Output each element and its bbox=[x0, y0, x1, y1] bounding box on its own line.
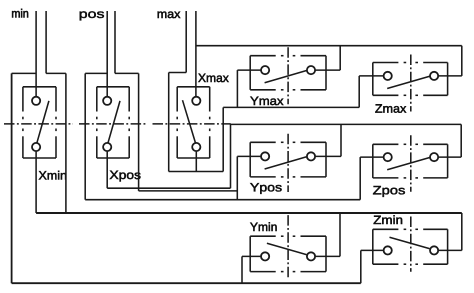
wire Zpos right lead bbox=[438, 156, 461, 158]
wire Ypos left lead bbox=[237, 155, 260, 157]
wire Ypos right lead bbox=[315, 155, 341, 157]
wire Zmax right drop bbox=[461, 46, 463, 76]
label Xmax bbox=[198, 74, 228, 82]
wire Xmax loop bottom edge bbox=[169, 171, 224, 173]
wire max feed (to Xmax top terminal) bbox=[195, 11, 197, 96]
wire pos right bus bbox=[231, 123, 462, 125]
label Zpos bbox=[373, 186, 405, 197]
switch Zpos housing (inner box) bbox=[373, 144, 448, 178]
wire Ymin right riser bbox=[339, 213, 341, 256]
wire Ypos right drop bbox=[340, 124, 342, 156]
wire Zmin left riser bbox=[360, 250, 362, 283]
wire Zpos left lead bbox=[360, 156, 384, 158]
wire Zpos left drop bbox=[359, 157, 361, 200]
switch Xmax contact lever bbox=[183, 100, 196, 143]
wire Zmin left lead bbox=[361, 249, 384, 251]
switch Ymin contact lever bbox=[267, 243, 307, 254]
wire Ypos left drop bbox=[236, 156, 238, 199]
wire Xpos loop right edge bbox=[138, 73, 140, 190]
switch Zpos contact lever bbox=[387, 158, 430, 170]
wire Xmin loop right edge bbox=[65, 73, 67, 213]
wire Xmin loop top-right bbox=[46, 72, 66, 74]
wire Ymax left lead bbox=[237, 69, 260, 71]
switch Xmax actuating centerline (dash-dot) bbox=[153, 123, 231, 125]
switch Zmax actuating centerline (dash-dot) bbox=[410, 55, 412, 112]
switch Ypos actuating centerline (dash-dot) bbox=[287, 134, 289, 192]
switch Ypos housing (inner box) bbox=[250, 142, 326, 177]
wire max return (jogs to Xmax loop) bbox=[169, 11, 187, 73]
wire Xmax loop left edge bbox=[168, 73, 170, 172]
switch Xmax bottom terminal bbox=[192, 143, 200, 151]
wire Ymin left drop bbox=[241, 256, 243, 283]
wire Ymin left lead bbox=[242, 255, 261, 257]
switch Xpos top terminal bbox=[103, 97, 111, 105]
switch Zmin right terminal bbox=[430, 246, 438, 254]
switch Ymax contact lever bbox=[265, 71, 307, 83]
switch Zpos right terminal bbox=[430, 153, 438, 161]
switch Xpos actuating centerline (dash-dot) bbox=[79, 123, 147, 125]
wire Ymax right riser bbox=[339, 46, 341, 70]
label Ymax bbox=[250, 97, 283, 105]
wire Zmin right lead bbox=[438, 249, 462, 251]
wire Zpos right drop bbox=[460, 124, 462, 157]
wire Xmin loop top-left bbox=[12, 72, 36, 74]
wire Xpos bottom terminal drop bbox=[106, 152, 108, 189]
switch Xmax top terminal bbox=[192, 97, 200, 105]
wire pos return bbox=[114, 11, 116, 73]
wire Ymin right lead bbox=[315, 255, 340, 257]
label Ymin bbox=[250, 222, 276, 231]
wire Zmax right lead bbox=[438, 75, 462, 77]
switch Zpos left terminal bbox=[384, 153, 392, 161]
wire min feed (to Xmin top terminal) bbox=[35, 11, 37, 96]
wire pos feed (to Xpos top terminal) bbox=[106, 11, 108, 96]
wire min return bbox=[45, 11, 47, 73]
switch Xmin actuating centerline (dash-dot) bbox=[4, 123, 73, 125]
label Ypos bbox=[250, 183, 281, 194]
switch Zmax housing (inner box) bbox=[373, 63, 448, 96]
label Zmax bbox=[375, 104, 406, 112]
wire max mid bus bbox=[223, 106, 359, 108]
switch Xmin contact lever bbox=[37, 101, 49, 143]
wire Ymax right lead bbox=[315, 69, 340, 71]
switch Zpos actuating centerline (dash-dot) bbox=[410, 135, 412, 192]
switch Ypos left terminal bbox=[261, 152, 269, 160]
switch Zmin left terminal bbox=[384, 246, 392, 254]
wire common bottom bus bbox=[12, 282, 361, 284]
wire Xpos-outer link bus (lower) bbox=[139, 190, 238, 192]
switch Xmin bottom terminal bbox=[32, 143, 40, 151]
switch Zmax left terminal bbox=[384, 72, 392, 80]
wire pos bus left drop bbox=[230, 124, 232, 188]
switch Ymax left terminal bbox=[261, 66, 269, 74]
switch Zmin contact lever bbox=[390, 237, 430, 248]
wire Xmin loop left edge (to bottom bus) bbox=[11, 73, 13, 283]
switch Ymin right terminal bbox=[307, 252, 315, 260]
switch Ymin actuating centerline (dash-dot) bbox=[287, 215, 289, 279]
switch Ymin left terminal bbox=[261, 252, 269, 260]
label pos bbox=[80, 11, 104, 20]
switch Ymax right terminal bbox=[307, 66, 315, 74]
label max bbox=[158, 12, 181, 19]
switch Ymax housing (inner box) bbox=[250, 56, 326, 90]
wire Xpos-bottom link bus (upper) bbox=[107, 187, 230, 189]
wire min long bus bbox=[36, 212, 462, 214]
switch Zmin housing (inner box) bbox=[373, 229, 448, 264]
wire Xpos loop top-right bbox=[115, 72, 139, 74]
label Xpos bbox=[110, 171, 141, 182]
switch Xpos contact lever bbox=[108, 101, 120, 143]
switch Ymin housing (inner box) bbox=[250, 236, 326, 271]
switch Zmax contact lever bbox=[387, 76, 430, 88]
switch Xmin top terminal bbox=[32, 97, 40, 105]
switch Xpos housing (inner box) bbox=[97, 87, 129, 158]
switch Ypos right terminal bbox=[307, 152, 315, 160]
wire Xpos loop top-left bbox=[85, 72, 107, 74]
label Zmin bbox=[374, 215, 403, 224]
switch Xmax housing (inner box) bbox=[177, 87, 210, 158]
wire Xmax loop right edge bbox=[222, 107, 224, 171]
wire Xmax bottom terminal drop bbox=[195, 152, 197, 172]
switch Xpos bottom terminal bbox=[103, 143, 111, 151]
wire Zmin right drop bbox=[461, 213, 463, 250]
switch Ymax actuating centerline (dash-dot) bbox=[287, 47, 289, 104]
switch Zmax right terminal bbox=[430, 72, 438, 80]
switch Ypos contact lever bbox=[265, 157, 307, 169]
label Xmin bbox=[39, 171, 66, 180]
wire Zmax left lead bbox=[359, 75, 384, 77]
wire Ymax left drop bbox=[236, 70, 238, 107]
wire Xmin bottom terminal drop bbox=[35, 152, 37, 213]
switch Xmin housing (inner box) bbox=[23, 87, 56, 158]
wire Zmax left riser bbox=[358, 76, 360, 108]
wire max top bus bbox=[196, 45, 462, 47]
label min bbox=[12, 9, 28, 18]
switch Zmin actuating centerline (dash-dot) bbox=[410, 217, 412, 272]
wire pos lower bus bbox=[85, 199, 360, 201]
wire Xpos loop left edge (to pos bus) bbox=[84, 73, 86, 199]
